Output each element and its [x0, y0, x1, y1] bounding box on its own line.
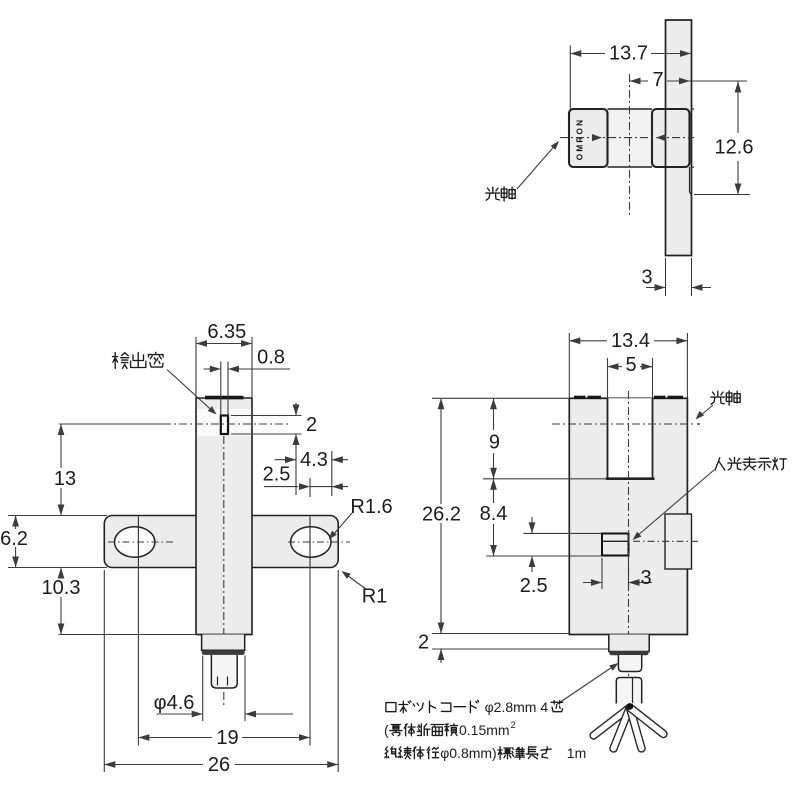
R1 leader: [346, 575, 366, 590]
dim 26.2 line and arrows: [440, 398, 442, 504]
dim 26 line and arrows: [104, 764, 203, 766]
front view: thick top face segment: [205, 396, 244, 400]
right view: indicator inner line: [602, 540, 629, 542]
svg-text:5: 5: [625, 354, 636, 376]
right view: side bump pad: [665, 514, 692, 569]
svg-text:1m: 1m: [567, 745, 586, 761]
dim 13.7 line and arrows: [570, 53, 605, 55]
dim 9 line and arrows: [493, 398, 495, 430]
body bottom extension: [432, 633, 569, 635]
svg-text:7: 7: [652, 69, 663, 91]
front view: mounting plate: [104, 516, 338, 568]
svg-text:2.5: 2.5: [263, 464, 291, 486]
front view: body bottom edge: [196, 634, 252, 636]
note line 3: insulation: [385, 747, 397, 758]
svg-text:0.15mm: 0.15mm: [459, 722, 510, 738]
dim 2 vertical line and arrows: [295, 403, 297, 416]
svg-text:26.2: 26.2: [422, 504, 461, 526]
svg-text:2: 2: [511, 720, 516, 730]
step bottom extension: [432, 648, 608, 650]
front view: vertical centerline of body: [223, 436, 225, 707]
svg-text:(: (: [384, 722, 389, 738]
dim 19 extension lines: [137, 568, 139, 746]
svg-text:13.7: 13.7: [609, 43, 648, 65]
dim 13.4 extension lines: [568, 333, 570, 398]
dim 0.8 line and arrows: [204, 368, 221, 370]
right view: center dash line: [628, 391, 630, 700]
right view: cable boot: [616, 678, 641, 704]
label nyuko hyoji to (indicator): [715, 458, 725, 470]
svg-text:R1.6: R1.6: [350, 496, 392, 518]
svg-text:φ2.8mm 4: φ2.8mm 4: [485, 699, 549, 715]
svg-text:26: 26: [208, 754, 230, 776]
svg-text:8.4: 8.4: [480, 503, 508, 525]
right view: sensor body: [569, 398, 687, 634]
svg-text:3: 3: [641, 267, 652, 289]
right view: slot bottom thick edge: [606, 477, 655, 480]
leader kouziku right: [700, 405, 713, 416]
svg-text:OMRON: OMRON: [576, 118, 585, 160]
svg-text:6.2: 6.2: [0, 528, 28, 550]
svg-text:10.3: 10.3: [42, 577, 81, 599]
svg-text:19: 19: [216, 727, 238, 749]
label kouziku right view: [711, 391, 725, 404]
body top extension left: [432, 397, 569, 399]
dim 5 extension lines: [607, 358, 609, 398]
svg-text:2: 2: [306, 414, 317, 436]
dim 5 line and arrows: [608, 366, 623, 368]
dim 13.7 extension line: [569, 46, 571, 110]
front view: connector collar: [204, 650, 243, 655]
svg-text:0.8: 0.8: [257, 347, 285, 369]
right view: plug: [618, 655, 641, 672]
dim 3 line and arrows: [583, 582, 602, 584]
right view: indicator lamp: [602, 534, 629, 556]
dim 6.35 line and arrows: [196, 343, 252, 345]
side view: gap shading between sensor blocks: [608, 110, 653, 166]
dim 3 extension lines: [665, 258, 667, 296]
dim 2 extension lines: [231, 415, 302, 417]
right view: wire junction dot: [626, 703, 633, 710]
dim 4.3 right extension: [331, 451, 333, 496]
dim phi4.6 extension lines: [202, 656, 204, 722]
slot bottom extension left: [483, 478, 605, 480]
dim 13 top extension (axis): [59, 423, 163, 425]
right view: indicator axis dash: [633, 540, 700, 542]
svg-text:2.5: 2.5: [520, 575, 548, 597]
svg-text:φ4.6: φ4.6: [154, 692, 195, 714]
robot cord leader: [556, 666, 615, 706]
svg-text:2: 2: [418, 632, 429, 654]
svg-text:12.6: 12.6: [715, 137, 754, 159]
dim 6.2 line and arrows: [15, 516, 17, 530]
leader for kouziku: [517, 147, 554, 190]
front view: horizontal optical axis: [163, 423, 290, 425]
svg-text:13: 13: [54, 468, 76, 490]
dim 4.3 line and arrows: [275, 459, 297, 461]
note line 1: robot cord: [386, 703, 396, 712]
right view: wires: [590, 705, 632, 739]
dim phi4.6 line and arrows: [157, 713, 203, 715]
dim 12.6 bottom extension: [694, 194, 750, 196]
R1.6 leader: [333, 513, 352, 535]
svg-text:φ0.8mm): φ0.8mm): [440, 745, 497, 761]
svg-text:3: 3: [640, 567, 651, 589]
dim 13.4 line and arrows: [569, 340, 607, 342]
leader indicator: [637, 470, 715, 537]
dim 26 extension lines: [103, 570, 105, 772]
front view: cable plug: [211, 655, 237, 688]
label kouziku (optical axis) top view: [486, 187, 500, 200]
side view: vertical centerline through gap: [629, 74, 631, 215]
dim 0.8 window extension lines: [220, 362, 222, 416]
dim 2.5 line and arrows: [264, 486, 298, 488]
label kenshutsumado (detection window): [113, 353, 129, 369]
front view: right hole centerlines: [288, 541, 350, 543]
front view: connector step: [202, 635, 245, 651]
dim 10.3 line and arrows: [60, 568, 62, 578]
right view: top face nubs: [574, 396, 586, 399]
front view: right slot hole: [291, 527, 331, 557]
dim 3 extension lines: [601, 558, 603, 589]
side view: optical axis line: [560, 137, 694, 139]
side view: bar inner step edge: [690, 167, 692, 195]
dim 8.4 line and arrows: [493, 479, 495, 503]
dim 10.3 bottom extension: [59, 634, 197, 636]
right view: connector step: [609, 635, 649, 652]
side view: receiver block (right): [652, 109, 690, 167]
side view: optical axis arrows: [592, 134, 602, 141]
side view: emitter block (left, OMRON mark): [569, 109, 608, 167]
dim 19 line and arrows: [138, 737, 212, 739]
front view: white window band across body: [197, 409, 251, 436]
front view: left hole centerlines: [108, 541, 176, 543]
side view: bar outline: [666, 20, 692, 256]
side view: connecting top/bottom faces of gap: [608, 108, 653, 110]
indicator top/bottom extensions: [523, 532, 602, 534]
svg-text:4.3: 4.3: [300, 449, 328, 471]
right view: U slot: [608, 398, 653, 478]
det window label leader: [167, 370, 213, 412]
side view: mounting plate bar: [666, 20, 692, 256]
front view: sensor body: [196, 398, 252, 635]
svg-text:9: 9: [489, 432, 500, 454]
front view: plug inner ticks: [217, 677, 219, 686]
svg-text:6.35: 6.35: [207, 321, 246, 343]
svg-text:13.4: 13.4: [611, 330, 650, 352]
dim 13 line and arrows: [60, 424, 62, 468]
dim 7 line and arrows: [630, 80, 649, 82]
dim 6.35 extension lines (body edges up): [195, 337, 197, 398]
dim 12.6 vertical line and arrows: [737, 82, 739, 134]
front view: detection window: [221, 416, 228, 435]
dim 2.5 line and arrows: [531, 517, 533, 533]
plate top/bottom extensions left: [8, 515, 107, 517]
front view: body outline: [196, 398, 252, 635]
dim 3 line and arrows: [646, 287, 666, 289]
right view: collar: [612, 651, 647, 655]
dim 2 arrows: [440, 649, 442, 663]
right view: optical axis line: [552, 423, 694, 425]
front view: left slot hole: [115, 527, 155, 557]
